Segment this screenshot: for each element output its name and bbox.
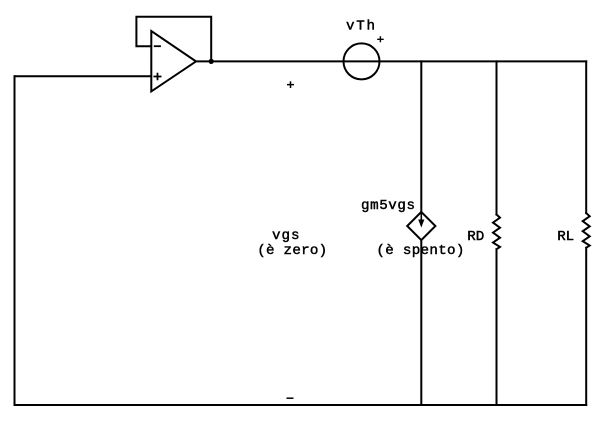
svg-text:gm5vgs: gm5vgs	[361, 198, 415, 214]
svg-text:(è zero): (è zero)	[257, 243, 327, 259]
svg-text:vgs: vgs	[272, 228, 300, 244]
svg-text:RL: RL	[557, 229, 574, 245]
svg-text:RD: RD	[467, 229, 484, 245]
svg-text:vTh: vTh	[346, 19, 375, 35]
svg-text:(è spento): (è spento)	[376, 243, 464, 259]
